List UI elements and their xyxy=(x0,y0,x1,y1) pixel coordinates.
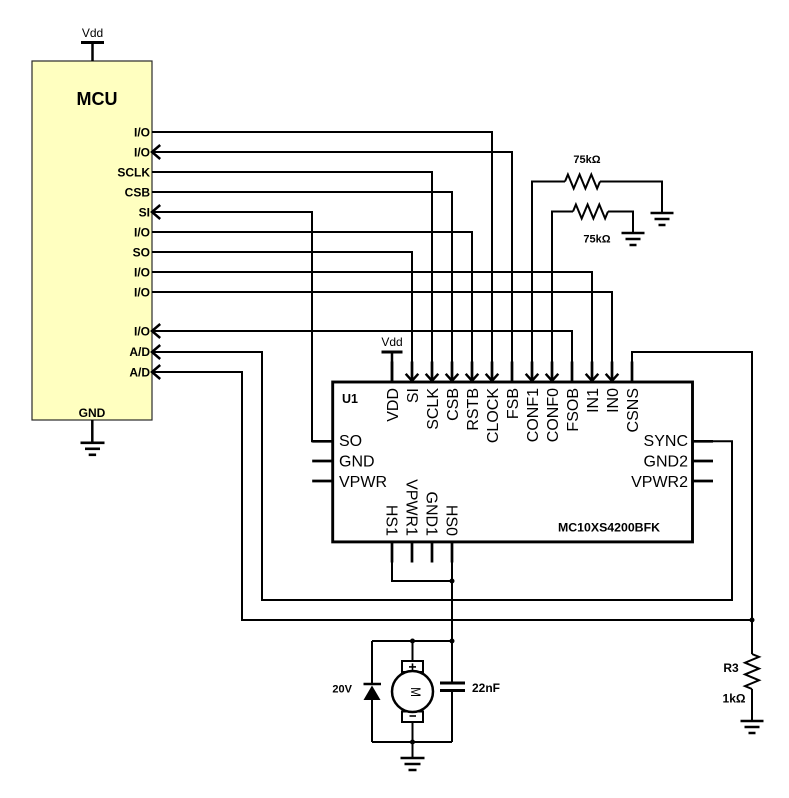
node junction at motor bottom xyxy=(410,740,415,745)
svg-text:CONF0: CONF0 xyxy=(545,388,562,442)
svg-text:CSB: CSB xyxy=(125,186,151,200)
svg-text:GND: GND xyxy=(79,406,106,420)
svg-text:I/O: I/O xyxy=(134,266,150,280)
ground at R3 xyxy=(741,721,764,733)
svg-text:GND: GND xyxy=(339,453,375,470)
diode D1 branch xyxy=(332,641,381,742)
svg-text:I/O: I/O xyxy=(134,325,150,339)
svg-text:75kΩ: 75kΩ xyxy=(573,154,600,166)
U1 top pin labels xyxy=(385,388,642,443)
motor M xyxy=(392,641,433,742)
wire U1 SYNC to MCU A/D (arrow into MCU) xyxy=(152,345,732,600)
svg-text:SO: SO xyxy=(133,246,150,260)
wire HS1 to HS0 xyxy=(392,542,452,581)
svg-text:VPWR: VPWR xyxy=(339,474,387,491)
svg-text:GND1: GND1 xyxy=(422,492,439,537)
svg-text:Vdd: Vdd xyxy=(82,26,103,40)
wire CSNS up-and-over xyxy=(632,352,752,620)
svg-text:MCU: MCU xyxy=(77,89,118,109)
wire CSB to CSB xyxy=(152,192,458,381)
svg-text:HS1: HS1 xyxy=(382,505,399,536)
svg-text:VPWR2: VPWR2 xyxy=(631,474,688,491)
svg-text:I/O: I/O xyxy=(134,126,150,140)
svg-text:SI: SI xyxy=(139,206,150,220)
svg-text:1kΩ: 1kΩ xyxy=(723,692,746,706)
svg-text:SO: SO xyxy=(339,433,362,450)
U1 pin leads xyxy=(312,362,713,563)
U1 bottom pin labels xyxy=(382,479,459,536)
svg-text:A/D: A/D xyxy=(129,345,150,359)
wire FSB to I/O (arrow into MCU) xyxy=(152,145,512,382)
svg-text:I/O: I/O xyxy=(134,286,150,300)
svg-text:75kΩ: 75kΩ xyxy=(583,234,610,246)
svg-text:A/D: A/D xyxy=(129,366,150,380)
svg-text:VPWR1: VPWR1 xyxy=(402,479,419,536)
svg-text:FSB: FSB xyxy=(505,388,522,419)
ground at R2 xyxy=(622,233,645,245)
node junction HS1/HS0 xyxy=(450,579,455,584)
svg-text:SCLK: SCLK xyxy=(425,388,442,430)
Vdd supply at MCU xyxy=(81,26,104,61)
svg-text:U1: U1 xyxy=(342,392,358,406)
svg-text:FSOB: FSOB xyxy=(565,388,582,432)
svg-text:SCLK: SCLK xyxy=(117,166,150,180)
ground below motor xyxy=(401,742,425,770)
svg-text:Vdd: Vdd xyxy=(381,335,402,349)
svg-text:CSNS: CSNS xyxy=(625,388,642,432)
svg-text:MC10XS4200BFK: MC10XS4200BFK xyxy=(558,521,660,535)
svg-text:IN1: IN1 xyxy=(585,388,602,413)
U1 right pin labels xyxy=(631,433,688,491)
svg-text:SI: SI xyxy=(405,388,422,403)
svg-text:RSTB: RSTB xyxy=(465,388,482,431)
U1 op IC box xyxy=(333,382,693,542)
svg-text:GND2: GND2 xyxy=(644,453,689,470)
svg-text:22nF: 22nF xyxy=(472,681,500,695)
capacitor C1 22nF xyxy=(440,641,500,742)
svg-text:I/O: I/O xyxy=(134,146,150,160)
MCU block xyxy=(32,61,152,420)
wire I/O to IN0 xyxy=(152,292,618,381)
wire I/O to IN1 xyxy=(152,272,598,381)
wire MCU SO to U1 SI xyxy=(152,252,418,381)
svg-text:VDD: VDD xyxy=(385,388,402,422)
node junction at R3 top xyxy=(750,618,755,623)
svg-text:CSB: CSB xyxy=(445,388,462,421)
svg-text:20V: 20V xyxy=(332,684,352,696)
svg-text:M: M xyxy=(408,687,424,697)
Vdd supply at U1 VDD pin xyxy=(381,335,402,382)
svg-text:IN0: IN0 xyxy=(605,388,622,413)
wire motor bottom rail xyxy=(372,741,452,743)
wire SCLK to SCLK xyxy=(152,172,438,381)
wire motor top rail xyxy=(372,640,452,642)
wire FSOB to I/O (arrow into MCU) xyxy=(152,324,572,382)
svg-text:I/O: I/O xyxy=(134,226,150,240)
resistor R1 75k on CONF1 xyxy=(526,154,662,381)
svg-text:R3: R3 xyxy=(723,661,739,675)
resistor R3 1k xyxy=(723,620,759,721)
ground below MCU xyxy=(81,420,105,455)
U1 left pin labels xyxy=(339,433,387,491)
wire HS0 down to motor xyxy=(451,542,453,641)
wire U1 CSNS / R3 to MCU A/D (arrow into MCU) xyxy=(152,365,752,620)
ground at R1 xyxy=(651,213,674,225)
svg-text:CONF1: CONF1 xyxy=(525,388,542,442)
svg-text:CLOCK: CLOCK xyxy=(485,388,502,443)
svg-text:HS0: HS0 xyxy=(442,505,459,536)
node junction at motor top xyxy=(410,639,415,644)
svg-text:SYNC: SYNC xyxy=(644,433,688,450)
resistor R2 75k on CONF0 xyxy=(546,205,633,381)
wire I/O to RSTB xyxy=(152,232,478,381)
wire I/O to CLOCK xyxy=(152,132,498,381)
node junction at cap top xyxy=(450,639,455,644)
wire U1 SO to MCU SI (arrow into MCU) xyxy=(152,205,333,441)
